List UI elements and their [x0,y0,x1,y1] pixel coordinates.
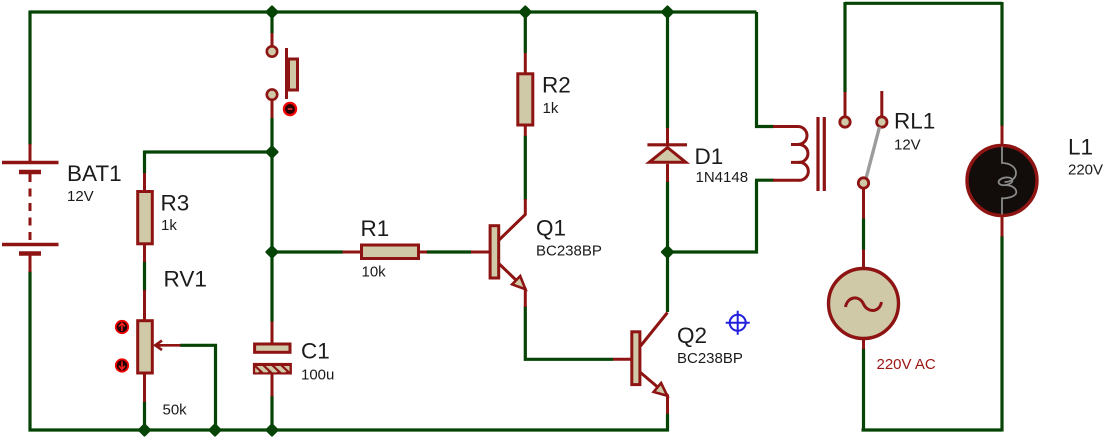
wire relay pole to AC source [862,218,865,250]
wire Q2 emitter to bottom rail [666,414,669,432]
node junction button column / R3 branch [267,147,278,158]
wire C1 bottom [270,396,273,431]
svg-text:R3: R3 [161,191,190,216]
wire relay coil bottom lead green part [755,179,774,182]
svg-text:L1: L1 [1068,134,1093,159]
svg-text:R1: R1 [361,216,390,241]
svg-text:220V: 220V [1068,162,1103,179]
wire R2 column upper [524,12,527,53]
RV1 down button [116,359,128,371]
svg-text:220V AC: 220V AC [877,356,936,373]
capacitor C1 [249,322,294,397]
wire R3 to RV1 [143,261,146,291]
svg-text:12V: 12V [894,137,921,154]
node junction top rail / R2 column [520,7,531,18]
relay RL1 contact switch [840,91,887,219]
potentiometer RV1 [138,290,181,402]
transistor Q2 [613,313,668,414]
wire node D1 to relay coil return [668,180,757,252]
wire RV1 wiper return [180,345,216,430]
wire R3 branch vertical [143,151,146,174]
wire R1 to Q1 base [427,250,472,253]
wire button column lower to C1 [270,118,273,322]
diode D1 [647,128,687,182]
svg-text:BC238BP: BC238BP [677,350,743,367]
node junction C1 column / R1 branch [267,247,278,258]
svg-text:1N4148: 1N4148 [696,169,749,186]
svg-text:12V: 12V [67,188,94,205]
svg-text:RL1: RL1 [894,109,935,134]
svg-text:10k: 10k [362,264,387,281]
relay RL1 coil [773,127,808,181]
wire top rail [30,10,757,13]
wire bottom rail [29,428,670,431]
wire R3 branch horizontal [145,150,273,153]
wire left rail top (to battery) [28,11,31,146]
svg-text:C1: C1 [301,339,330,364]
svg-text:Q2: Q2 [677,323,707,348]
resistor R3 [138,173,153,262]
wire left rail bottom (battery to bottom rail) [28,271,31,432]
wire button column upper [270,12,273,33]
wire Q1 emitter to Q2 base [525,306,613,359]
origin marker crosshair [726,311,750,335]
wire top rail corner down to coil [757,12,775,127]
svg-text:50k: 50k [163,402,188,419]
pushbutton [267,33,298,118]
svg-text:1k: 1k [543,100,559,117]
transistor Q1 [471,199,526,307]
svg-text:R2: R2 [542,73,571,98]
wire RV1 to bottom rail [143,402,146,431]
node junction top rail / D1 column [662,7,673,18]
relay RL1 core bars [818,117,824,191]
node junction top rail / button column [267,7,278,18]
svg-text:Q1: Q1 [536,216,566,241]
svg-text:100u: 100u [301,367,334,384]
wire AC source bottom [862,348,865,432]
wire R2 to Q1 collector [524,136,527,201]
svg-text:BC238BP: BC238BP [536,243,602,260]
node junction bottom rail / C1 column [267,425,278,436]
RV1 up button [116,321,128,333]
svg-text:D1: D1 [695,144,724,169]
lamp L1 [967,126,1037,237]
resistor R1 [343,245,428,259]
wire D1 column lower [666,181,669,252]
svg-text:BAT1: BAT1 [67,161,122,186]
node junction D1 / relay / Q2 collector [662,247,673,258]
node junction bottom rail / RV1 column [139,425,150,436]
resistor R2 [518,53,533,136]
svg-text:1k: 1k [161,217,177,234]
wire node to R1 [272,250,343,253]
svg-text:RV1: RV1 [164,267,207,292]
AC source [829,250,899,350]
node junction bottom rail / wiper column [210,425,221,436]
wire lamp circuit bottom rail [862,428,1003,431]
battery BAT1 [2,144,59,272]
wire relay throw riser [843,2,846,92]
wire lamp net top rail [845,2,1002,5]
wire lamp top riser [1000,2,1003,126]
wire Q2 collector riser [666,252,669,312]
wire D1 column upper [666,12,669,128]
wire lamp bottom riser [1000,236,1003,432]
